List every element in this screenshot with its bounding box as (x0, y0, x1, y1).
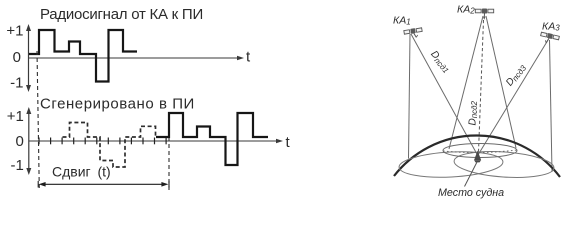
small position circle (from sat2) (443, 144, 517, 158)
svg-text:Dпсд2: Dпсд2 (468, 100, 480, 125)
satellite KA3 icon (539, 31, 559, 45)
waveform 1: PRN signal from satellite (29, 30, 137, 82)
label Dpsd3 (rotated along sat3 line) (504, 62, 528, 89)
axis horizontal t (plot 2) (29, 139, 283, 144)
svg-text:-1: -1 (10, 157, 23, 174)
cone line sat2 right (486, 16, 516, 148)
satellite KA1 icon (404, 27, 423, 39)
position circle left (big ellipse) (398, 149, 503, 179)
label Dpsd2 (vertical along dashed line) (468, 100, 480, 125)
Earth surface thick arc (394, 135, 560, 177)
svg-text:(t): (t) (98, 164, 111, 180)
satellite KA2 icon (475, 9, 493, 20)
label Dpsd1 (rotated along sat1 line) (428, 49, 453, 75)
svg-text:КА3: КА3 (542, 21, 560, 33)
svg-text:Сгенерировано в ПИ: Сгенерировано в ПИ (40, 95, 195, 112)
shift double arrow (38, 181, 169, 188)
svg-text:КА1: КА1 (393, 15, 411, 27)
pointer line to ship (465, 162, 478, 187)
ship icon (474, 151, 481, 161)
dashed marker line at shift end x=168 (168, 137, 170, 190)
position circle right (big ellipse) (453, 149, 555, 181)
cone line sat1 left (409, 34, 411, 159)
svg-text:+1: +1 (6, 22, 23, 39)
svg-text:Место судна: Место судна (438, 187, 504, 199)
axis horizontal t (plot 1) (29, 56, 245, 61)
svg-text:КА2: КА2 (457, 4, 475, 16)
waveform 2: shifted PRN replica (solid) (156, 113, 268, 165)
tick marks on axis (plot 2) (39, 138, 166, 145)
cone line sat2 left (449, 16, 483, 149)
cone line sat1 to ship (411, 34, 478, 156)
svg-text:0: 0 (13, 49, 21, 66)
dotted chord of small circle (443, 150, 517, 153)
axis vertical (plot 1) (26, 24, 31, 92)
cone line sat3 to ship (478, 40, 548, 155)
svg-text:Сдвиг: Сдвиг (52, 164, 91, 180)
svg-text:t: t (246, 49, 251, 66)
axis vertical (plot 2) (26, 107, 31, 175)
cone line sat3 right (550, 40, 553, 172)
svg-text:-1: -1 (10, 75, 23, 92)
svg-text:t: t (286, 134, 291, 151)
dashed replica waveform (early copy in receiver) (63, 123, 156, 168)
dashed range line sat2 to ship (479, 20, 484, 152)
dashed marker line at shift start x=38 (37, 51, 39, 190)
svg-text:Радиосигнал от КА к ПИ: Радиосигнал от КА к ПИ (40, 6, 203, 23)
svg-text:0: 0 (15, 133, 23, 150)
svg-text:Dпсд3: Dпсд3 (504, 62, 528, 89)
svg-text:+1: +1 (7, 108, 24, 125)
